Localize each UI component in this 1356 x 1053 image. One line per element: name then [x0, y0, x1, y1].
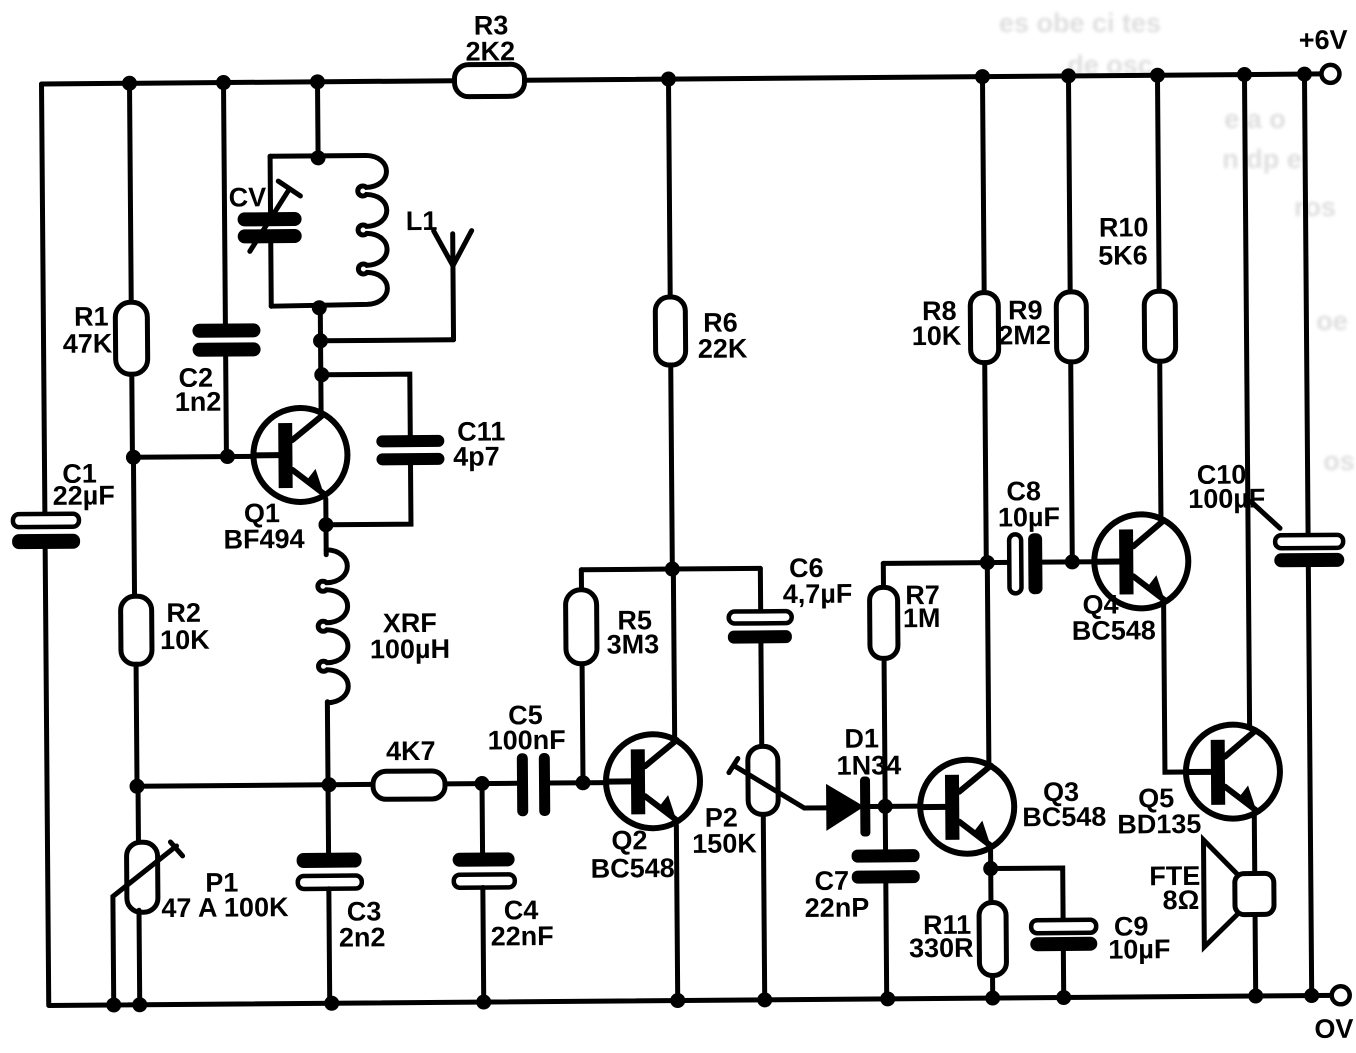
capacitor C10	[1275, 535, 1343, 549]
capacitor C8	[1009, 534, 1021, 593]
resistor R11	[979, 902, 1007, 975]
junction rail C9	[1056, 990, 1071, 1005]
wire R6 top	[668, 79, 670, 297]
svg-text:BD135: BD135	[1117, 809, 1201, 840]
wire C3 top	[326, 785, 332, 853]
wire tank feed from rail	[315, 82, 321, 158]
junction rail speaker	[1248, 988, 1263, 1003]
speaker FTE	[1203, 840, 1237, 947]
ghost bleed-through text	[999, 8, 1355, 476]
junction base wire C2	[220, 449, 235, 464]
wire R5 top	[579, 570, 584, 590]
wire C5 to Q2 base	[550, 780, 606, 785]
wire main AF line left	[137, 784, 373, 786]
wire D1 cathode to Q3 base	[870, 804, 920, 809]
wire C11 bottom branch	[326, 465, 411, 525]
junction R5 bottom node	[575, 775, 590, 790]
svg-text:os: os	[1323, 446, 1355, 476]
wire P2 bottom	[763, 814, 764, 998]
wire C4 top	[480, 784, 486, 853]
svg-text:1M: 1M	[903, 603, 941, 633]
wire tank left side lower	[268, 242, 274, 306]
svg-text:R10: R10	[1099, 212, 1149, 242]
svg-text:e a o: e a o	[1224, 104, 1286, 134]
svg-text:C7: C7	[814, 866, 849, 896]
capacitor C9	[1031, 920, 1096, 934]
junction C8 R9 Q4 node	[1065, 554, 1080, 569]
wire Q4 emitter to Q5 base	[1164, 605, 1186, 772]
svg-text:n dp e: n dp e	[1222, 144, 1302, 174]
junction Q3 collector node	[980, 555, 995, 570]
capacitor C4	[453, 852, 515, 866]
resistor R10	[1144, 291, 1176, 361]
junction top rail R8	[975, 69, 990, 84]
capacitor C5	[517, 753, 528, 816]
capacitor C1	[13, 514, 79, 528]
junction emitter C11 node	[318, 517, 333, 532]
svg-text:2M2: 2M2	[998, 320, 1051, 350]
svg-text:10µF: 10µF	[998, 502, 1060, 532]
junction top rail R10	[1150, 68, 1165, 83]
resistor R2	[121, 596, 153, 664]
junction rail R11	[985, 990, 1000, 1005]
wire R2 bottom	[134, 664, 140, 786]
wire Q1 base	[133, 454, 255, 460]
svg-text:10K: 10K	[160, 625, 210, 655]
wire Q5 collector	[1244, 75, 1249, 730]
svg-text:150K: 150K	[692, 828, 757, 859]
junction top rail C10	[1297, 67, 1312, 82]
wire Q2 emitter down	[676, 825, 677, 999]
junction top rail tank	[310, 74, 325, 89]
wire R6 bottom	[671, 365, 673, 569]
svg-text:330R: 330R	[909, 933, 974, 964]
resistor R9	[1056, 292, 1087, 362]
svg-text:10µF: 10µF	[1108, 934, 1170, 964]
svg-text:4,7µF: 4,7µF	[783, 579, 853, 610]
wire R11 bottom	[990, 976, 995, 997]
wire top +6V rail left segment	[42, 81, 455, 84]
junction R5 R6 node	[665, 561, 680, 576]
terminal +6V	[1321, 65, 1339, 83]
wire C8 right to Q4 base	[1042, 559, 1096, 564]
terminal 0V	[1332, 986, 1350, 1004]
junction rail P1	[132, 997, 147, 1012]
svg-text:+6V: +6V	[1299, 25, 1348, 55]
svg-text:8Ω: 8Ω	[1163, 885, 1200, 915]
wire R7 stub top	[881, 563, 886, 587]
wire C4 bottom	[480, 888, 486, 1001]
resistor R7	[869, 587, 898, 658]
capacitor C3	[297, 852, 362, 868]
junction rail C10	[1304, 988, 1319, 1003]
wire top +6V rail right segment	[524, 74, 1322, 80]
svg-text:10K: 10K	[912, 321, 962, 351]
svg-text:2K2: 2K2	[465, 36, 515, 66]
svg-text:BC548: BC548	[591, 853, 675, 884]
wire node to C6	[672, 566, 760, 572]
junction rail P2	[757, 992, 772, 1007]
svg-text:100nF: 100nF	[488, 725, 566, 756]
junction tank bottom	[312, 300, 327, 315]
svg-text:4p7: 4p7	[453, 441, 500, 471]
wire Q3 collector	[987, 563, 989, 768]
svg-text:3M3: 3M3	[607, 629, 660, 659]
junction main wire C4	[474, 776, 489, 791]
antenna	[450, 234, 456, 340]
wire Q1 emitter down	[323, 499, 328, 555]
svg-text:R2: R2	[166, 598, 201, 628]
svg-text:47K: 47K	[63, 328, 113, 358]
wire C7 top	[883, 806, 888, 849]
capacitor C7	[852, 849, 920, 863]
wire R1 column upper	[130, 83, 132, 302]
wire XRF bottom	[325, 702, 331, 785]
svg-text:2n2: 2n2	[339, 922, 386, 952]
wire P1 top	[136, 786, 141, 842]
wire C6 bottom to P2	[758, 643, 764, 746]
wire Q3 emitter down	[988, 851, 993, 903]
inductor L1 coil	[270, 155, 387, 306]
variable capacitor CV	[238, 212, 302, 227]
junction top rail R9	[1061, 68, 1076, 83]
resistor R1	[115, 302, 148, 374]
wire antenna to collector column	[321, 340, 454, 341]
wire tank left side upper	[268, 156, 273, 212]
wire Q5 emitter to speaker	[1252, 815, 1257, 873]
svg-text:D1: D1	[844, 723, 879, 753]
transistor Q2	[606, 734, 701, 829]
junction collector C11 node	[314, 367, 329, 382]
wire bottom 0V rail	[49, 995, 1334, 1005]
svg-text:100µH: 100µH	[370, 634, 450, 665]
wire C11 top branch	[322, 374, 410, 436]
junction top rail C2	[216, 75, 231, 90]
capacitor C2	[192, 323, 260, 338]
wire left border upper	[42, 84, 45, 514]
wire C3 bottom	[326, 889, 332, 1002]
wire R8 bottom	[985, 363, 987, 563]
junction Q3 emitter node	[983, 861, 998, 876]
junction antenna node	[313, 333, 328, 348]
wire R7 bottom	[884, 658, 885, 806]
svg-text:1n2: 1n2	[175, 387, 222, 417]
wire Q2 collector	[673, 569, 674, 740]
wire C2 bottom to base	[223, 357, 229, 457]
wire R5 bottom	[580, 664, 586, 783]
wire emitter to C9	[991, 868, 1063, 921]
svg-text:5K6: 5K6	[1098, 240, 1148, 270]
transistor Q3	[920, 759, 1015, 854]
junction base wire R1R2	[126, 450, 141, 465]
svg-text:R1: R1	[74, 301, 109, 331]
svg-text:4K7: 4K7	[386, 736, 436, 766]
junction main wire XRF	[321, 777, 336, 792]
wire R1 bottom to base node	[129, 374, 135, 457]
wire R2 column	[133, 457, 134, 596]
svg-text:OV: OV	[1314, 1014, 1353, 1044]
svg-text:22nF: 22nF	[491, 921, 554, 951]
junction rail P1 wiper	[106, 997, 121, 1012]
svg-text:CV: CV	[229, 182, 267, 212]
wire C10 top	[1304, 74, 1308, 535]
wire C10 bottom	[1308, 567, 1311, 994]
junction D1 R7 C7 node	[878, 799, 893, 814]
junction rail C7	[880, 991, 895, 1006]
svg-text:22µF: 22µF	[53, 480, 115, 510]
resistor R3	[454, 64, 524, 97]
junction top rail R1	[122, 76, 137, 91]
wire node to R5	[581, 567, 672, 573]
wire R9 bottom	[1071, 362, 1073, 562]
svg-text:BC548: BC548	[1072, 615, 1156, 646]
svg-text:es obe ci tes: es obe ci tes	[999, 8, 1161, 38]
svg-text:100µF: 100µF	[1188, 483, 1265, 514]
resistor R5	[565, 590, 597, 664]
transistor Q4	[1094, 514, 1189, 609]
diode D1	[826, 784, 864, 831]
junction tank top	[311, 150, 326, 165]
wire R10 bottom to Q4 collector	[1160, 361, 1161, 520]
wire C8 left	[987, 560, 1009, 565]
wire speaker to rail	[1253, 914, 1259, 994]
svg-text:1N34: 1N34	[836, 750, 901, 781]
resistor R8	[970, 292, 999, 362]
inductor XRF coil	[318, 550, 349, 703]
junction rail Q2 emitter	[670, 993, 685, 1008]
wire C9 bottom	[1061, 951, 1066, 996]
svg-text:BC548: BC548	[1022, 802, 1106, 833]
wire R7 to collector node	[883, 560, 987, 566]
wire P1 bottom	[137, 910, 143, 1003]
wire C2 column upper	[224, 83, 226, 324]
junction main wire R2	[129, 779, 144, 794]
svg-text:BF494: BF494	[223, 524, 304, 555]
svg-text:22nP: 22nP	[805, 893, 870, 924]
wire R8 top	[982, 77, 984, 293]
transistor Q1	[253, 408, 348, 503]
svg-text:47 A 100K: 47 A 100K	[161, 892, 289, 923]
junction rail C4	[476, 994, 491, 1009]
capacitor C11	[376, 435, 444, 448]
wire 4K7 to C5	[445, 781, 517, 787]
junction rail C3	[324, 996, 339, 1011]
svg-text:22K: 22K	[698, 333, 748, 363]
wire tank bottom to Q1 collector	[318, 308, 324, 415]
resistor R6	[655, 297, 686, 365]
wire left border lower	[45, 549, 49, 1004]
capacitor C6	[758, 568, 763, 611]
transistor Q5	[1186, 724, 1281, 819]
svg-text:oe: oe	[1316, 306, 1348, 336]
svg-text:ros: ros	[1294, 192, 1336, 222]
svg-text:Q2: Q2	[611, 825, 647, 855]
potentiometer P2	[748, 746, 779, 814]
resistor 4K7	[373, 771, 445, 800]
junction top rail R6	[661, 72, 676, 87]
wire C7 bottom	[883, 883, 889, 997]
junction top rail Q5	[1237, 67, 1252, 82]
potentiometer P1	[126, 842, 158, 912]
wire R9 top	[1068, 76, 1070, 292]
wire R10 top	[1157, 75, 1159, 291]
